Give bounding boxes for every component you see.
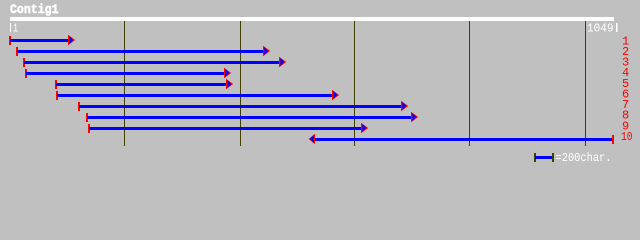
read 1 arrowhead <box>68 35 75 45</box>
read 10 arrowhead (reverse, points left) <box>309 134 315 144</box>
read 7 arrowhead <box>401 101 408 111</box>
ruler label |1 <box>10 23 11 32</box>
read 7 start tick <box>78 102 80 111</box>
read 5 arrowhead <box>226 79 233 89</box>
legend right tick <box>552 153 554 162</box>
read 7 line <box>79 105 401 108</box>
legend left tick <box>534 153 536 162</box>
read 3 arrowhead <box>279 57 286 67</box>
read 6 arrowhead <box>332 90 339 100</box>
read 1 start tick <box>9 36 11 45</box>
read 2 start tick <box>16 47 18 56</box>
read 8 line <box>87 116 411 119</box>
read 2 line <box>17 50 263 53</box>
read 1 line <box>10 39 68 42</box>
read 8 arrowhead <box>411 112 418 122</box>
read 9 line <box>89 127 361 130</box>
read 6 start tick <box>56 91 58 100</box>
svg-text:1049: 1049 <box>587 22 614 36</box>
read 8 start tick <box>86 113 88 122</box>
read 10 start tick (right end) <box>612 135 614 144</box>
svg-text:Contig1: Contig1 <box>10 2 59 17</box>
read 5 start tick <box>55 80 57 89</box>
ruler tick 1000 <box>585 21 586 146</box>
read 9 arrowhead <box>361 123 368 133</box>
read 3 start tick <box>23 58 25 67</box>
read 9 start tick <box>88 124 90 133</box>
ruler bar <box>10 17 614 21</box>
svg-text:=200char.: =200char. <box>556 151 612 165</box>
ruler tick 200 <box>124 21 125 146</box>
read 3 line <box>24 61 279 64</box>
svg-text:1: 1 <box>13 22 18 36</box>
ruler tick 600 <box>354 21 355 146</box>
read 4 start tick <box>25 69 27 78</box>
svg-text:10: 10 <box>621 130 633 144</box>
read 2 arrowhead <box>263 46 270 56</box>
legend line <box>535 156 552 159</box>
read 6 line <box>57 94 332 97</box>
ruler tick 400 <box>240 21 241 146</box>
read 4 arrowhead <box>224 68 231 78</box>
read 10 line <box>315 138 612 141</box>
read 5 line <box>56 83 226 86</box>
read 4 line <box>26 72 224 75</box>
ruler tick 800 <box>469 21 470 146</box>
